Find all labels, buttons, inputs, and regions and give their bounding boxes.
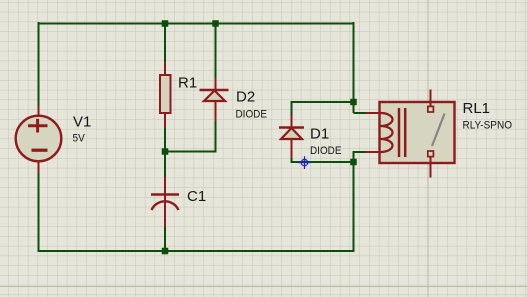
diode D2 cathode bar [200, 89, 229, 92]
wire D1 bottom vertical [291, 157, 293, 163]
svg-text:D1: D1 [310, 126, 329, 143]
wire D1 top vertical [291, 102, 293, 116]
wire R1 bottom [164, 127, 166, 153]
resistor R1 pins [164, 62, 166, 76]
svg-text:RL1: RL1 [463, 100, 491, 117]
battery V1 body [16, 116, 62, 162]
wire bottom rail [38, 250, 355, 252]
diode D1 pins [291, 115, 293, 128]
node junction top D2 [212, 20, 219, 27]
node junction D1 top [350, 99, 357, 106]
wire D1 bottom horizontal [291, 161, 355, 163]
relay RL1 bottom terminal [428, 151, 434, 157]
relay RL1 core lines [398, 108, 401, 157]
node junction D1 bottom [350, 159, 357, 166]
svg-text:V1: V1 [73, 114, 91, 131]
wire right column top [353, 22, 355, 113]
wire to relay coil top [354, 112, 367, 114]
wire left rail top [38, 22, 40, 107]
capacitor C1 curved plate [152, 201, 179, 210]
relay RL1 coil pins [366, 112, 381, 114]
svg-text:RLY-SPNO: RLY-SPNO [463, 120, 513, 132]
diode D1 cathode bar [279, 126, 304, 129]
relay RL1 coil arcs [381, 113, 393, 152]
svg-text:DIODE: DIODE [236, 109, 268, 121]
wire right column mid [353, 151, 355, 163]
relay RL1 top terminal [428, 106, 434, 112]
node origin marker (blue crosshair) [298, 156, 311, 169]
wire relay coil bottom [354, 151, 367, 153]
wire C1 top [164, 152, 166, 179]
svg-text:R1: R1 [178, 75, 197, 92]
node junction R1 bottom [162, 148, 169, 155]
wire D2 bottom vertical [215, 120, 217, 153]
wire right column bottom [353, 162, 355, 252]
battery V1 pins [38, 106, 40, 117]
svg-text:5V: 5V [73, 133, 86, 145]
resistor R1 body [160, 75, 171, 113]
wire C1 bottom [164, 227, 166, 253]
battery V1 minus sign [32, 149, 48, 152]
diode D1 triangle [281, 128, 302, 139]
wire left rail bottom [38, 172, 40, 252]
svg-text:D2: D2 [236, 89, 255, 106]
relay RL1 switch arm [432, 114, 445, 146]
wire D1 top horizontal [291, 101, 355, 103]
relay RL1 bottom pin [430, 157, 432, 178]
svg-text:C1: C1 [187, 188, 206, 205]
wire R1-D2 horizontal [164, 151, 217, 153]
wire D2 top [215, 23, 217, 80]
wire R1 top [164, 23, 166, 64]
battery V1 plus sign [28, 124, 48, 127]
node junction bottom rail C1 [162, 248, 169, 255]
relay RL1 top pin [430, 90, 432, 107]
node junction top R1 [162, 20, 169, 27]
diode D2 pins [215, 78, 217, 90]
capacitor C1 pin top [164, 177, 166, 227]
diode D2 triangle [204, 91, 225, 102]
svg-text:DIODE: DIODE [310, 145, 342, 157]
wire top rail [38, 23, 355, 25]
relay RL1 body box [380, 102, 455, 163]
capacitor C1 top plate [151, 193, 179, 195]
